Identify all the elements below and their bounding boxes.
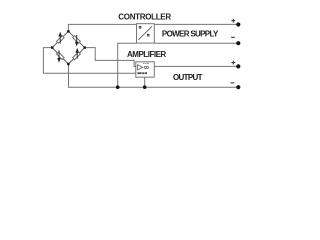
svg-text:POWER SUPPLY: POWER SUPPLY: [162, 30, 219, 39]
svg-text:AMPLIFIER: AMPLIFIER: [127, 50, 166, 59]
svg-text:OUTPUT: OUTPUT: [173, 73, 203, 82]
svg-text:CONTROLLER: CONTROLLER: [118, 13, 171, 22]
